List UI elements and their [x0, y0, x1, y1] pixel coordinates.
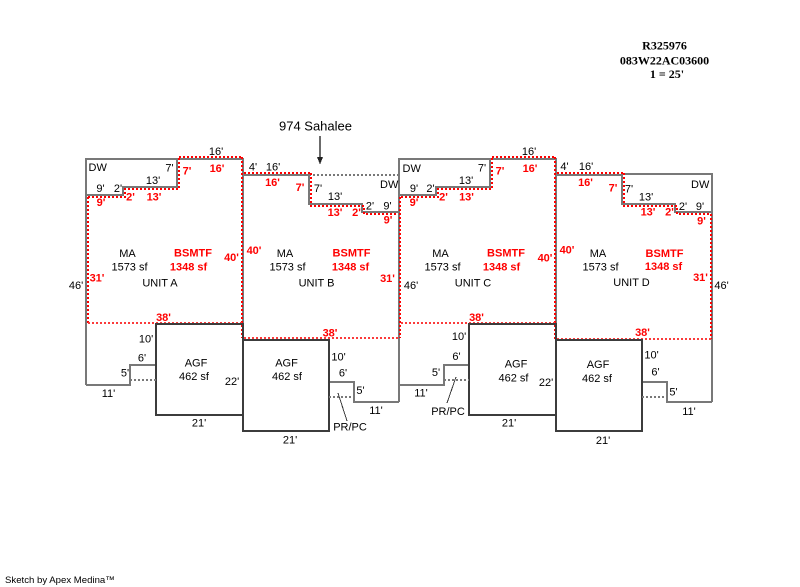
svg-text:AGF: AGF [587, 359, 610, 371]
svg-text:974 Sahalee: 974 Sahalee [279, 119, 352, 134]
svg-text:13': 13' [459, 192, 474, 204]
svg-text:46': 46' [404, 280, 418, 292]
svg-text:9': 9' [384, 215, 393, 227]
svg-text:Sketch by Apex Medina™: Sketch by Apex Medina™ [5, 575, 115, 586]
unit B basement top steps [311, 173, 398, 214]
svg-text:11': 11' [414, 388, 428, 400]
svg-text:4': 4' [249, 162, 257, 174]
svg-text:2': 2' [366, 201, 374, 213]
svg-text:16': 16' [579, 161, 593, 173]
svg-text:1573 sf: 1573 sf [111, 262, 148, 274]
svg-text:16': 16' [578, 177, 593, 189]
unit B garage AGF box [243, 340, 329, 431]
svg-text:BSMTF: BSMTF [333, 248, 371, 260]
svg-text:MA: MA [590, 248, 607, 260]
svg-text:PR/PC: PR/PC [431, 406, 465, 418]
unit D basement right edge 40' red dotted [710, 214, 712, 339]
svg-text:7': 7' [296, 182, 305, 194]
974 Sahalee pointer arrow [319, 136, 321, 158]
svg-text:46': 46' [714, 280, 728, 292]
svg-text:13': 13' [459, 175, 473, 187]
svg-text:1 = 25': 1 = 25' [650, 67, 684, 81]
svg-text:4': 4' [560, 161, 568, 173]
svg-text:BSMTF: BSMTF [646, 248, 684, 260]
unit C PR/PC pointer line [447, 377, 456, 403]
svg-text:9': 9' [97, 197, 106, 209]
svg-text:6': 6' [138, 353, 146, 365]
unit D DW box top and right [622, 174, 712, 212]
svg-text:1573 sf: 1573 sf [582, 262, 619, 274]
unit C basement top steps [401, 157, 492, 197]
svg-text:1348 sf: 1348 sf [170, 262, 208, 274]
svg-text:40': 40' [247, 245, 262, 257]
svg-text:1573 sf: 1573 sf [269, 262, 306, 274]
svg-text:6': 6' [651, 367, 659, 379]
svg-text:40': 40' [538, 253, 553, 265]
svg-text:16': 16' [265, 177, 280, 189]
unit D basement bottom 38' red dashed [557, 338, 711, 340]
svg-text:AGF: AGF [275, 358, 298, 370]
svg-text:21': 21' [596, 435, 610, 447]
svg-text:7': 7' [609, 183, 618, 195]
unit B basement bottom 38' red dashed [244, 337, 398, 339]
svg-text:5': 5' [669, 387, 677, 399]
svg-text:MA: MA [277, 248, 294, 260]
svg-text:9': 9' [410, 197, 419, 209]
svg-text:462 sf: 462 sf [179, 371, 210, 383]
svg-text:40': 40' [560, 245, 575, 257]
svg-text:9': 9' [383, 201, 391, 213]
svg-text:UNIT A: UNIT A [142, 278, 178, 290]
svg-text:1348 sf: 1348 sf [332, 262, 370, 274]
svg-text:UNIT D: UNIT D [613, 277, 650, 289]
svg-text:AGF: AGF [505, 359, 528, 371]
unit D gray dotted patio connector [642, 396, 667, 398]
svg-text:462 sf: 462 sf [582, 373, 613, 385]
svg-text:16': 16' [522, 146, 536, 158]
unit B/C shared wall [398, 158, 400, 402]
svg-text:13': 13' [147, 192, 162, 204]
unit C main-area (MA) outline, gray solid [399, 158, 490, 160]
svg-text:31': 31' [693, 272, 708, 284]
svg-text:462 sf: 462 sf [499, 373, 530, 385]
svg-text:2': 2' [126, 192, 135, 204]
svg-text:7': 7' [314, 183, 322, 195]
svg-text:11': 11' [102, 388, 116, 400]
unit A gray dotted patio connector [130, 379, 156, 381]
svg-text:7': 7' [625, 184, 633, 196]
unit C basement bottom 38' red dashed [401, 322, 555, 324]
svg-text:11': 11' [682, 406, 696, 418]
svg-text:2': 2' [426, 183, 434, 195]
unit D basement (BSMTF) outline, red dotted [557, 172, 624, 174]
unit A MA top steps 9'-2'-13'-7' [86, 158, 177, 195]
svg-text:16': 16' [209, 146, 223, 158]
svg-text:AGF: AGF [185, 358, 208, 370]
unit B MA bottom steps 6'-5'-11' [329, 382, 399, 402]
unit D garage AGF box [556, 340, 642, 431]
svg-text:DW: DW [380, 179, 399, 191]
svg-text:DW: DW [691, 179, 710, 191]
unit A basement bottom 38' red dashed [88, 322, 243, 324]
unit D MA bottom steps 6'-5'-11' [642, 382, 712, 402]
svg-text:MA: MA [119, 248, 136, 260]
svg-text:5': 5' [356, 385, 364, 397]
svg-text:2': 2' [352, 207, 361, 219]
unit B gray dotted patio connector [329, 396, 354, 398]
svg-text:1348 sf: 1348 sf [483, 262, 521, 274]
unit B PR/PC pointer line [338, 393, 347, 421]
svg-text:38': 38' [156, 312, 171, 324]
svg-text:16': 16' [210, 163, 225, 175]
svg-text:462 sf: 462 sf [272, 371, 303, 383]
svg-text:11': 11' [369, 405, 383, 417]
unit C gray dotted patio connector [444, 379, 469, 381]
svg-text:21': 21' [502, 418, 516, 430]
svg-text:UNIT C: UNIT C [455, 278, 492, 290]
unit B main-area (MA) outline, gray solid [243, 174, 309, 176]
svg-text:10': 10' [452, 331, 466, 343]
svg-text:083W22AC03600: 083W22AC03600 [620, 54, 709, 68]
svg-text:PR/PC: PR/PC [333, 422, 367, 434]
unit D basement top steps [624, 173, 711, 214]
svg-text:22': 22' [225, 376, 239, 388]
unit C MA top steps 9'-2'-13'-7' [399, 158, 490, 195]
svg-text:7': 7' [496, 166, 505, 178]
svg-text:13': 13' [639, 192, 653, 204]
svg-text:22': 22' [539, 377, 553, 389]
svg-text:31': 31' [380, 273, 395, 285]
svg-text:13': 13' [146, 175, 160, 187]
svg-text:MA: MA [432, 248, 449, 260]
svg-text:7': 7' [165, 163, 173, 175]
svg-text:6': 6' [339, 368, 347, 380]
svg-text:38': 38' [323, 328, 338, 340]
unit C MA bottom steps 11'-5'-6' [399, 365, 469, 385]
svg-text:DW: DW [403, 163, 422, 175]
svg-text:5': 5' [121, 368, 129, 380]
svg-text:UNIT B: UNIT B [299, 278, 335, 290]
svg-text:BSMTF: BSMTF [487, 248, 525, 260]
svg-text:2': 2' [114, 183, 122, 195]
svg-text:9': 9' [410, 183, 418, 195]
unit C garage AGF box [469, 324, 556, 415]
svg-text:21': 21' [192, 418, 206, 430]
svg-text:2': 2' [439, 192, 448, 204]
svg-text:10': 10' [139, 334, 153, 346]
unit D MA right edge 46' [711, 212, 713, 402]
unit B/C basement shared wall red dotted [399, 197, 401, 338]
unit A garage AGF box [156, 324, 243, 415]
svg-text:10': 10' [331, 352, 345, 364]
svg-text:13': 13' [641, 207, 656, 219]
svg-text:5': 5' [432, 367, 440, 379]
unit B DW gray dotted line [309, 174, 399, 176]
unit D MA top steps 7'-13'-2'-9' [622, 175, 712, 212]
unit A basement top steps [88, 157, 179, 197]
unit C/D basement shared wall red dotted [554, 157, 556, 339]
svg-text:9': 9' [96, 183, 104, 195]
svg-text:1348 sf: 1348 sf [645, 261, 683, 273]
unit A MA bottom steps 11'-5'-6' [86, 365, 156, 385]
svg-text:1573 sf: 1573 sf [424, 262, 461, 274]
svg-text:10': 10' [644, 350, 658, 362]
unit D main-area (MA) outline, gray solid [556, 174, 622, 176]
svg-text:31': 31' [90, 273, 105, 285]
svg-text:R325976: R325976 [642, 39, 687, 53]
unit A main-area (MA) outline, gray solid [86, 159, 177, 385]
svg-text:38': 38' [635, 327, 650, 339]
svg-text:6': 6' [452, 351, 460, 363]
svg-text:2': 2' [679, 201, 687, 213]
svg-text:2': 2' [665, 207, 674, 219]
svg-text:40': 40' [224, 252, 239, 264]
svg-text:BSMTF: BSMTF [174, 248, 212, 260]
svg-text:13': 13' [328, 191, 342, 203]
svg-text:46': 46' [69, 280, 83, 292]
unit B basement (BSMTF) outline, red dotted [244, 172, 311, 174]
svg-text:9': 9' [696, 201, 704, 213]
svg-text:7': 7' [183, 166, 192, 178]
unit A basement (BSMTF) outline, red dotted [87, 197, 89, 323]
svg-text:7': 7' [478, 163, 486, 175]
svg-text:21': 21' [283, 435, 297, 447]
unit B MA top steps 7'-13'-2'-9' [309, 175, 399, 212]
svg-text:9': 9' [697, 216, 706, 228]
svg-text:13': 13' [328, 207, 343, 219]
svg-text:16': 16' [523, 163, 538, 175]
svg-text:38': 38' [469, 312, 484, 324]
unit A/B basement shared wall red dotted [241, 157, 243, 338]
svg-text:DW: DW [89, 162, 108, 174]
svg-text:16': 16' [266, 162, 280, 174]
